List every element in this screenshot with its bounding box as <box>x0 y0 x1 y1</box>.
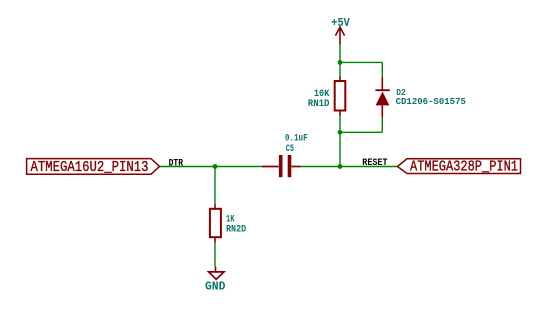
svg-text:+5V: +5V <box>331 16 350 30</box>
wire RESET node up <box>339 132 341 166</box>
global label ATMEGA16U2_PIN13 <box>27 159 160 175</box>
svg-text:GND: GND <box>205 279 225 293</box>
junction node on RESET wire <box>338 164 343 169</box>
wire diode bottom vertical <box>381 118 383 133</box>
wire diode top vertical <box>381 62 383 77</box>
svg-text:C5: C5 <box>286 144 294 155</box>
wire top node to resistor RN1D <box>339 62 341 76</box>
svg-text:RN1D: RN1D <box>308 99 330 110</box>
wire from node to resistor RN2D <box>214 167 216 205</box>
svg-text:RN2D: RN2D <box>226 225 246 236</box>
wire RESET net horizontal right <box>301 166 398 168</box>
junction node bottom of RC pair <box>338 130 343 135</box>
wire DTR net horizontal left <box>159 166 262 168</box>
wire bottom horizontal to diode branch <box>340 131 382 133</box>
power +5V symbol <box>335 27 344 44</box>
resistor RN2D <box>210 204 221 242</box>
junction node on DTR wire <box>213 164 218 169</box>
global label ATMEGA328P_PIN1 <box>398 159 521 174</box>
diode D2 <box>375 77 389 117</box>
wire top horizontal to diode branch <box>340 61 382 63</box>
svg-text:DTR: DTR <box>169 159 184 170</box>
ground <box>209 267 224 280</box>
svg-text:0.1uF: 0.1uF <box>285 133 308 144</box>
svg-text:RESET: RESET <box>362 158 387 169</box>
resistor RN1D <box>335 77 346 116</box>
wire resistor RN1D to bottom node <box>339 116 341 133</box>
capacitor C5 <box>262 155 301 177</box>
wire +5V down to top node <box>339 45 341 63</box>
wire resistor RN2D to ground <box>214 243 216 267</box>
junction node top of RC pair <box>338 60 343 65</box>
svg-text:CD1206-S01575: CD1206-S01575 <box>396 96 467 107</box>
svg-text:ATMEGA328P_PIN1: ATMEGA328P_PIN1 <box>410 160 518 176</box>
svg-text:ATMEGA16U2_PIN13: ATMEGA16U2_PIN13 <box>31 160 149 176</box>
